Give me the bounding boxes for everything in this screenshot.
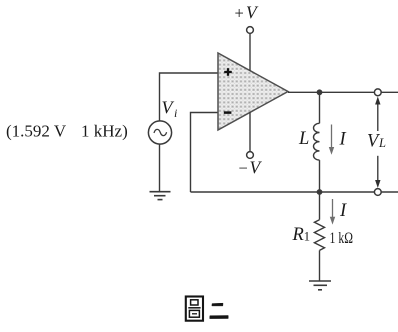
- resistor R1: [314, 220, 324, 251]
- wire: stub right of top terminal: [381, 91, 398, 93]
- wire: feedback from - input down to bottom rail: [191, 113, 219, 193]
- voltage arrow VL (down arrow): [375, 156, 380, 188]
- caption: 二 (two) drawn glyph: [210, 303, 229, 318]
- op-amp U1: [218, 53, 288, 130]
- voltage arrow VL (up arrow): [375, 97, 380, 132]
- terminal: bottom right: [374, 189, 381, 196]
- node: bottom rail junction: [317, 189, 323, 195]
- svg-text:L: L: [378, 136, 386, 150]
- svg-text:1 kΩ: 1 kΩ: [330, 230, 354, 247]
- svg-text:(1.592 V: (1.592 V: [6, 122, 67, 141]
- wire: stub right of bottom terminal: [381, 191, 398, 193]
- op-amp + input marker: [224, 68, 232, 76]
- svg-text:1: 1: [304, 230, 310, 244]
- node: top output junction: [317, 89, 323, 95]
- wire: Vi bottom to ground: [159, 144, 161, 191]
- caption: 圖 (figure) drawn glyph: [186, 297, 203, 321]
- inductor L: [314, 123, 320, 160]
- svg-text:I: I: [339, 130, 347, 150]
- current arrow I (through L): [329, 125, 334, 155]
- terminal -V: [247, 152, 254, 159]
- op-amp - input marker: [224, 111, 232, 114]
- svg-text:V: V: [162, 98, 175, 118]
- source Vi (sine source): [148, 121, 171, 144]
- svg-text:i: i: [174, 106, 177, 120]
- wire: bottom rail: [191, 191, 375, 193]
- wire: Vi top to op-amp + input: [160, 73, 219, 121]
- wire: inductor bottom to bottom rail: [319, 160, 321, 192]
- ground (right, under R1): [309, 281, 331, 290]
- wire: junction down to R1: [319, 192, 321, 220]
- current arrow I (into R1): [330, 199, 335, 225]
- wire: R1 to ground: [319, 250, 321, 280]
- svg-text:V: V: [250, 158, 263, 178]
- svg-text:−: −: [239, 159, 248, 178]
- svg-text:1 kHz): 1 kHz): [81, 122, 128, 141]
- svg-text:R: R: [292, 225, 304, 245]
- terminal: top right output: [374, 89, 381, 96]
- svg-text:I: I: [339, 201, 347, 221]
- wire: op-amp bottom to -V supply: [249, 112, 251, 151]
- wire: +V supply to op-amp top: [249, 34, 251, 71]
- wire: junction down to inductor: [319, 92, 321, 123]
- terminal +V: [247, 27, 254, 34]
- svg-text:V: V: [246, 3, 259, 23]
- svg-text:+: +: [235, 4, 244, 23]
- svg-text:L: L: [298, 129, 309, 149]
- ground (left, under Vi): [150, 192, 171, 200]
- wire: op-amp output rail to right terminal: [288, 91, 374, 93]
